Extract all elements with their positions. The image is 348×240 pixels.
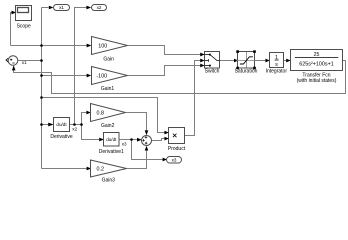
sum minus sign [12, 62, 14, 64]
arrowhead into Integrator [265, 59, 269, 63]
svg-text:100: 100 [98, 43, 107, 49]
svg-text:x1: x1 [22, 60, 27, 65]
svg-text:1: 1 [275, 55, 278, 61]
sum1 plus sign top [145, 136, 147, 138]
arrowhead into Saturation [234, 59, 238, 63]
svg-text:x3: x3 [122, 141, 127, 146]
block Product [169, 128, 185, 144]
goto tag x1 [54, 5, 70, 11]
svg-text:Scope: Scope [17, 23, 31, 29]
sum plus sign [10, 59, 12, 61]
wire x2 up to x2 goto tag [75, 8, 87, 125]
junction node sum output [40, 59, 43, 62]
svg-text:Integrator: Integrator [266, 68, 288, 74]
block Transfer Fcn [291, 50, 343, 71]
svg-text:x3: x3 [172, 158, 177, 163]
arrowhead into Sum1 top [145, 130, 149, 135]
junction node gain1 branch [40, 74, 43, 77]
block Derivative [54, 118, 70, 132]
svg-text:25: 25 [314, 52, 320, 58]
transfer fcn fraction bar [295, 57, 338, 59]
block Integrator [270, 53, 284, 68]
arrowhead into Product bottom [164, 137, 168, 141]
wire x1 to Product top input [42, 98, 165, 133]
goto tag x2 [92, 5, 107, 11]
saturation selection handles [236, 50, 256, 69]
wire Transfer Fcn feedback to sum minus input [14, 61, 346, 94]
arrowhead into Gain [87, 44, 92, 48]
svg-text:Gain2: Gain2 [101, 123, 115, 129]
block Saturation [238, 52, 255, 69]
svg-text:Gain3: Gain3 [102, 177, 116, 183]
svg-text:-100: -100 [96, 73, 107, 79]
gain block Gain2 [91, 104, 126, 122]
arrowhead into Product top [164, 131, 168, 135]
arrowhead into Switch bottom [200, 64, 204, 68]
gain block Gain1 [92, 67, 128, 85]
wire Derivative output x2 [70, 124, 82, 126]
saturation icon curve [240, 57, 253, 64]
wire x2 to Gain2 [82, 113, 87, 125]
svg-text:(with initial states): (with initial states) [297, 78, 337, 84]
junction node product branch [40, 96, 43, 99]
svg-text:Gain1: Gain1 [101, 86, 115, 92]
wire Gain output to Switch top [128, 46, 201, 55]
wire x1 to Gain3 [42, 168, 87, 170]
wire Gain2 output to Sum1 top [126, 113, 147, 131]
svg-text:Derivative: Derivative [50, 134, 72, 140]
sum1 plus sign bottom [145, 142, 147, 144]
junction node scope-gain branch [40, 44, 43, 47]
wire Derivative1 output x3 to Sum1 [119, 139, 137, 141]
gain block Gain [92, 37, 128, 55]
wire Integrator to Transfer Fcn [284, 60, 287, 62]
svg-text:du/dt: du/dt [56, 122, 67, 127]
junction node x2 tag branch [73, 123, 76, 126]
svg-text:Switch: Switch [205, 68, 220, 74]
arrowhead into Derivative1 [99, 138, 104, 142]
arrowhead into x3 goto tag [163, 158, 167, 162]
wire x1 branch to scope riser and Gain input [11, 13, 87, 46]
wire trunk top to x1 goto tag [42, 7, 49, 9]
arrowhead into Gain1 [87, 74, 92, 78]
svg-text:Product: Product [168, 146, 186, 152]
gain block Gain3 [91, 160, 127, 177]
arrowhead into Switch middle [200, 59, 204, 63]
sum1 plus sign left [142, 139, 144, 141]
wire x1 trunk vertical [41, 8, 43, 169]
svg-text:Derivative1: Derivative1 [99, 149, 124, 155]
block Scope [16, 6, 32, 21]
sum block Sum [8, 56, 18, 66]
svg-text:0.2: 0.2 [97, 167, 105, 173]
goto tag x3 [167, 157, 182, 164]
product multiply sign [173, 134, 177, 138]
wire Sum1 output to Product bottom input [152, 139, 165, 141]
junction node x3 tag branch [130, 138, 133, 141]
svg-text:625s²+100s+1: 625s²+100s+1 [299, 62, 333, 68]
saturation icon axes [237, 52, 256, 68]
wire x1 to Derivative [42, 124, 49, 126]
wire Saturation to Integrator [255, 60, 266, 62]
arrowhead into Gain3 [87, 167, 91, 171]
svg-text:x2: x2 [97, 5, 102, 10]
unconnected plus input port of Sum [6, 58, 8, 62]
svg-text:x1: x1 [59, 5, 64, 10]
integrator fraction bar [275, 59, 279, 61]
block Switch [205, 52, 220, 69]
junction node derivative branch [40, 123, 43, 126]
block Derivative1 [104, 133, 120, 147]
junction node gain2-derivative1 branch [80, 123, 83, 126]
svg-text:s: s [275, 62, 278, 68]
wire x1 to Gain1 [42, 75, 87, 77]
arrowhead into Sum1 bottom [145, 146, 149, 151]
arrowhead into Switch top [200, 53, 204, 57]
svg-text:Saturation: Saturation [235, 68, 258, 74]
arrowhead into Gain2 [86, 111, 90, 115]
arrowhead into Derivative [48, 123, 53, 127]
wire x2 to Derivative1 [82, 125, 100, 140]
sum block Sum1 [142, 136, 152, 146]
svg-text:du/dt: du/dt [106, 137, 117, 142]
svg-text:Gain: Gain [103, 56, 114, 62]
wire Product output up to Switch control [185, 61, 201, 136]
svg-text:0.8: 0.8 [97, 111, 105, 117]
wire Gain1 output to Switch bottom [128, 66, 201, 76]
arrowhead into Scope [12, 11, 17, 15]
switch icon internals [205, 55, 220, 66]
svg-text:x2: x2 [72, 126, 77, 131]
arrowhead into Sum1 left [137, 138, 142, 142]
wire sum output x1 [18, 60, 42, 62]
arrowhead into x2 goto tag [86, 6, 91, 10]
arrowhead into x1 goto tag [49, 6, 54, 10]
arrowhead into sum bottom feedback [12, 65, 16, 70]
wire Switch to Saturation [220, 60, 235, 62]
wire Gain3 output to Sum1 bottom [127, 150, 147, 168]
arrowhead into Transfer Fcn [286, 59, 290, 63]
wire x3 branch to x3 goto tag [132, 140, 163, 160]
